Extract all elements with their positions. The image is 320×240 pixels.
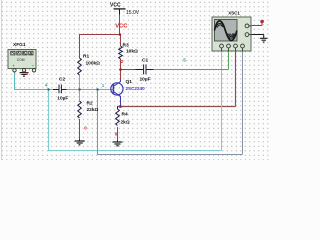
svg-text:R3: R3 bbox=[123, 43, 129, 49]
svg-text:C2: C2 bbox=[59, 77, 65, 83]
svg-text:2SC2240: 2SC2240 bbox=[126, 86, 146, 91]
svg-text:XSC1: XSC1 bbox=[228, 11, 240, 16]
svg-text:15.0V: 15.0V bbox=[126, 10, 140, 16]
svg-text:XFG1: XFG1 bbox=[13, 42, 26, 48]
svg-text:VCC: VCC bbox=[110, 3, 121, 9]
svg-text:10kΩ: 10kΩ bbox=[126, 49, 138, 55]
svg-text:10µF: 10µF bbox=[140, 77, 151, 83]
svg-text:R2: R2 bbox=[87, 101, 93, 107]
svg-text:100kΩ: 100kΩ bbox=[86, 60, 101, 66]
svg-text:Q1: Q1 bbox=[126, 79, 133, 85]
svg-text:C1: C1 bbox=[142, 58, 148, 64]
svg-text:22kΩ: 22kΩ bbox=[87, 107, 99, 113]
svg-text:10µF: 10µF bbox=[57, 95, 68, 101]
svg-text:2kΩ: 2kΩ bbox=[121, 120, 130, 126]
svg-text:COM: COM bbox=[17, 58, 25, 62]
svg-text:VCC: VCC bbox=[115, 24, 128, 30]
svg-text:R4: R4 bbox=[122, 111, 128, 117]
svg-text:R1: R1 bbox=[83, 53, 89, 59]
